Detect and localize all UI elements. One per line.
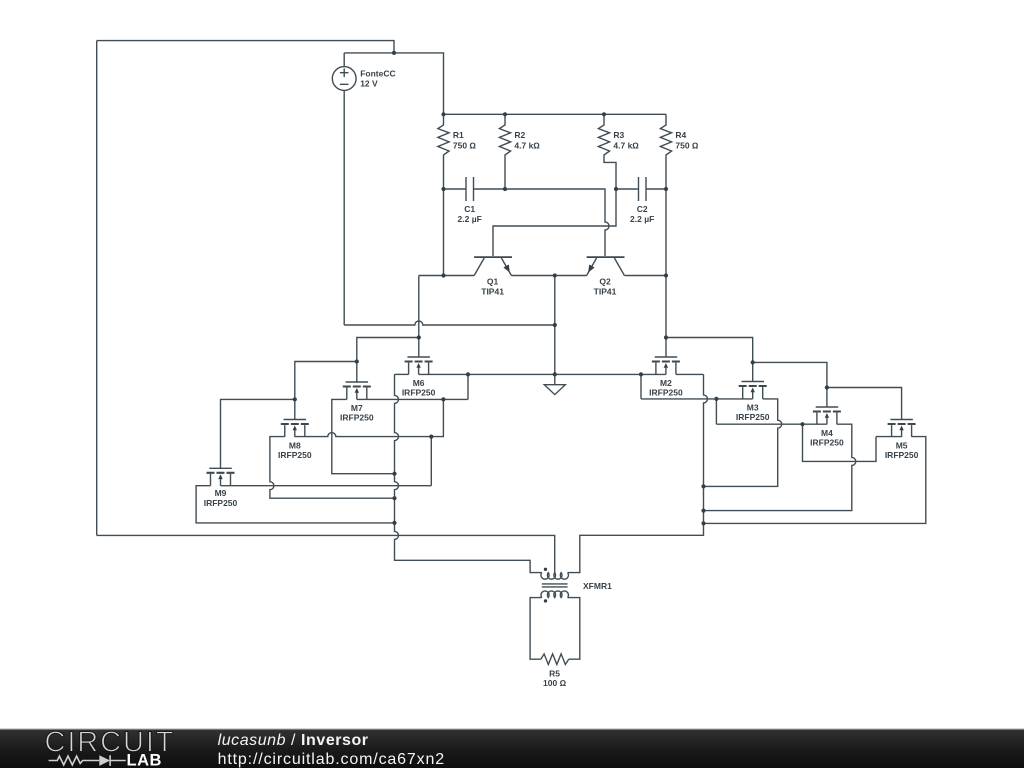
wire ground zigzag M4 to M5 level xyxy=(803,424,877,461)
node C2 R4 xyxy=(664,187,668,191)
svg-text:12 V: 12 V xyxy=(360,78,378,88)
node M8 drain bus xyxy=(392,496,396,500)
wire M6 source to ground node row xyxy=(419,373,555,375)
svg-text:M6: M6 xyxy=(413,378,425,388)
wire M2 drain to right drain bus xyxy=(676,373,704,375)
wire ground zigzag M8 to M9 level xyxy=(430,437,432,486)
wire M6 drain to left drain bus xyxy=(395,373,409,375)
node source negative to ground xyxy=(553,323,557,327)
wire ground zigzag M6 to M7 level xyxy=(467,374,469,399)
wire Q1 collector row with R1 node xyxy=(419,189,474,276)
svg-text:Q1: Q1 xyxy=(487,276,499,286)
node emitters center xyxy=(553,273,557,277)
svg-text:IRFP250: IRFP250 xyxy=(810,438,844,448)
node Q2 collector R4 xyxy=(664,273,668,277)
transistor M6 IRFP250 xyxy=(402,357,436,398)
node +12V source top xyxy=(392,51,396,55)
svg-text:lucasunb / Inversor: lucasunb / Inversor xyxy=(218,732,369,749)
wire source top node to R1 feed xyxy=(344,53,443,114)
transistor M9 IRFP250 xyxy=(204,468,238,508)
node M4 drain bus xyxy=(701,509,705,513)
wire ground zigzag M3 to M4 level xyxy=(715,399,717,424)
node M3 drain bus xyxy=(701,484,705,488)
svg-text:IRFP250: IRFP250 xyxy=(736,412,770,422)
wire left +12V rail down left side xyxy=(96,41,98,536)
wire M5 drain down to bus xyxy=(704,437,926,524)
wire M9 source row to zigzag corner xyxy=(221,485,432,487)
wire gate tap M8 to M9 xyxy=(221,399,295,468)
wire M3 drain down to bus xyxy=(704,399,782,487)
node M9 drain bus xyxy=(392,521,396,525)
node M7 source zigzag xyxy=(441,397,445,401)
svg-text:IRFP250: IRFP250 xyxy=(204,498,238,508)
svg-text:M4: M4 xyxy=(821,428,833,438)
svg-text:IRFP250: IRFP250 xyxy=(885,450,919,460)
wire ground row right from ground to M2 xyxy=(555,373,666,375)
wire M9 drain down to bus xyxy=(196,486,394,523)
capacitor C2 2.2uF xyxy=(616,177,666,224)
wire M4 source row from zigzag, hop over M3 drain line xyxy=(716,423,827,425)
wire resistor rail xyxy=(444,113,667,115)
node M7 drain bus xyxy=(392,472,396,476)
wire M8 source row, hops over M7 drain line and drain bus xyxy=(295,433,432,437)
resistor R4 750 xyxy=(660,114,699,189)
capacitor C1 2.2uF xyxy=(444,177,506,224)
svg-text:2.2 µF: 2.2 µF xyxy=(458,214,482,224)
node gate bus right xyxy=(664,335,668,339)
wire ground zigzag M2 to M3 level xyxy=(640,374,642,399)
transistor Q1 TIP41 xyxy=(474,257,512,297)
svg-text:750 Ω: 750 Ω xyxy=(675,140,699,150)
svg-text:TIP41: TIP41 xyxy=(481,287,504,297)
svg-text:R3: R3 xyxy=(613,130,624,140)
svg-text:R2: R2 xyxy=(514,130,525,140)
svg-text:TIP41: TIP41 xyxy=(594,287,617,297)
resistor R1 750 xyxy=(438,114,477,189)
wire right drain bus down to transformer primary right, hop over M3 source row xyxy=(568,374,708,572)
svg-text:LAB: LAB xyxy=(127,752,162,768)
wire secondary right to R5 loop xyxy=(568,598,580,660)
svg-text:IRFP250: IRFP250 xyxy=(649,388,683,398)
svg-text:XFMR1: XFMR1 xyxy=(583,581,612,591)
svg-text:R4: R4 xyxy=(675,130,686,140)
svg-text:IRFP250: IRFP250 xyxy=(278,450,312,460)
node R3 C2 xyxy=(614,187,618,191)
svg-text:4.7 kΩ: 4.7 kΩ xyxy=(613,140,639,150)
wire cross-couple B: C2/R3 node to Q1 base xyxy=(493,189,616,256)
transistor M4 IRFP250 xyxy=(810,407,844,448)
wire Q2 collector to R4 node xyxy=(624,189,666,276)
voltage source FonteCC 12V xyxy=(332,53,395,325)
wire M3 source row from zigzag, hop over M2 drain bus xyxy=(641,398,753,400)
svg-text:http://circuitlab.com/ca67xn2: http://circuitlab.com/ca67xn2 xyxy=(218,751,445,768)
node M5 drain bus xyxy=(701,521,705,525)
wire M8 drain down to bus, hop over M9 source row xyxy=(270,437,395,499)
svg-text:750 Ω: 750 Ω xyxy=(453,140,477,150)
node ground row M2 zigzag xyxy=(639,372,643,376)
resistor R5 100 xyxy=(541,654,569,688)
svg-text:FonteCC: FonteCC xyxy=(360,68,395,78)
wire gate tap M7 to M8 xyxy=(295,362,357,420)
wire M4 drain down to bus xyxy=(704,424,856,510)
node C1 R2 xyxy=(503,187,507,191)
svg-text:C2: C2 xyxy=(637,204,648,214)
svg-text:100 Ω: 100 Ω xyxy=(543,678,567,688)
node R1 C1 xyxy=(441,187,445,191)
wire center emitter node down to ground xyxy=(554,276,556,385)
svg-text:M8: M8 xyxy=(289,441,301,451)
node rail R3 xyxy=(602,112,606,116)
wire Q2 collector down to M2 gate xyxy=(665,276,667,358)
transistor Q2 TIP41 xyxy=(587,257,625,297)
wire secondary left to R5 loop xyxy=(530,598,542,660)
svg-text:M7: M7 xyxy=(351,403,363,413)
node gate tap M8 xyxy=(293,397,297,401)
ground symbol xyxy=(544,385,565,395)
svg-text:IRFP250: IRFP250 xyxy=(340,413,374,423)
svg-text:IRFP250: IRFP250 xyxy=(402,388,436,398)
wire cross-couple A: C1/R2 node to Q2 base, hop over wire B xyxy=(505,189,609,256)
resistor R3 4.7k with jog to C2 node xyxy=(598,114,639,189)
wire gate tap M4 to M5 xyxy=(827,388,902,420)
node ground row M6 zigzag xyxy=(466,372,470,376)
wire gate bus M2 node to M3 gate xyxy=(666,338,753,382)
transistor M5 IRFP250 xyxy=(885,420,919,461)
wire +12V top loop from left rail to source node xyxy=(97,41,394,53)
wire ground zigzag M7 to M8 level xyxy=(431,399,443,436)
transformer XFMR1 xyxy=(541,568,612,603)
wire Q1 collector down to M6 gate xyxy=(418,276,420,358)
transistor M8 IRFP250 xyxy=(278,420,312,461)
wire +12V row to transformer center tap xyxy=(97,535,555,572)
transistor M7 IRFP250 xyxy=(340,382,374,423)
svg-text:Q2: Q2 xyxy=(599,276,611,286)
node ground row center xyxy=(553,372,557,376)
svg-text:M2: M2 xyxy=(660,378,672,388)
wire M7 drain down to bus xyxy=(332,399,395,473)
svg-text:M9: M9 xyxy=(215,488,227,498)
resistor R2 4.7k xyxy=(499,114,540,189)
node Q1 collector R1 xyxy=(441,273,445,277)
wire gate tap M3 to M4 xyxy=(753,362,827,407)
wire M5 source row xyxy=(876,436,902,438)
node gate tap M3 xyxy=(751,360,755,364)
svg-text:M5: M5 xyxy=(896,441,908,451)
svg-text:2.2 µF: 2.2 µF xyxy=(630,214,654,224)
wire gate bus M6 node to M7 gate xyxy=(357,338,419,383)
wire M7 source row to zigzag xyxy=(357,398,468,400)
svg-text:R1: R1 xyxy=(453,130,464,140)
svg-text:4.7 kΩ: 4.7 kΩ xyxy=(514,140,540,150)
transistor M2 IRFP250 xyxy=(649,357,683,398)
svg-text:M3: M3 xyxy=(747,403,759,413)
node rail R2 xyxy=(503,112,507,116)
transistor M3 IRFP250 xyxy=(736,382,770,423)
wire FonteCC negative to center node, hop over Q1 gate line xyxy=(344,321,555,325)
SECTION: footer xyxy=(0,727,1024,768)
node M4 source zigzag xyxy=(800,422,804,426)
node M3 source zigzag xyxy=(714,397,718,401)
node M8 source zigzag xyxy=(429,435,433,439)
node rail R1 xyxy=(441,112,445,116)
svg-text:C1: C1 xyxy=(464,204,475,214)
node gate tap M4 xyxy=(825,385,829,389)
node gate tap M7 xyxy=(355,359,359,363)
wire left drain bus down to transformer primary left, hops over 4 rows xyxy=(395,374,542,572)
node gate bus left xyxy=(417,335,421,339)
wire Q1/Q2 emitters to center node xyxy=(511,275,586,277)
